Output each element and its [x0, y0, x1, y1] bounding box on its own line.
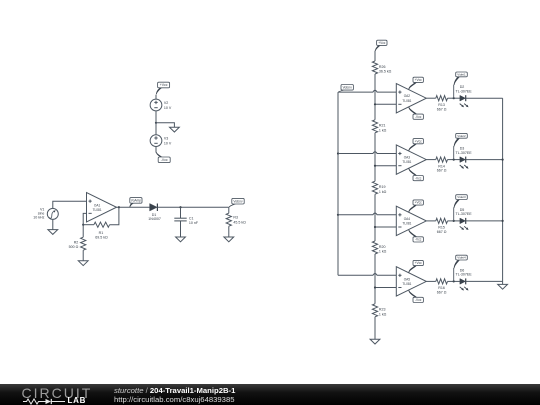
svg-text:+Vcc: +Vcc: [415, 261, 423, 265]
voltage source V2: [150, 99, 172, 111]
svg-text:1N4007: 1N4007: [148, 217, 161, 221]
svg-text:Videt4: Videt4: [457, 256, 466, 260]
wire: [466, 159, 503, 161]
node junction: [502, 159, 504, 161]
svg-text:+Vcc: +Vcc: [160, 83, 168, 87]
svg-text:+Vcc: +Vcc: [415, 139, 423, 143]
wire: [338, 213, 396, 215]
svg-text:TL081: TL081: [402, 222, 411, 226]
wire: [426, 220, 436, 222]
svg-text:10 kHz: 10 kHz: [33, 215, 44, 219]
svg-text:1 kΩ: 1 kΩ: [379, 312, 387, 316]
wire: [466, 280, 503, 282]
svg-text:R21: R21: [379, 124, 386, 128]
wire: [374, 74, 376, 120]
LED D6: [456, 268, 473, 290]
svg-text:1 kΩ: 1 kΩ: [379, 190, 387, 194]
node junction: [337, 152, 339, 154]
svg-text:R19: R19: [379, 185, 386, 189]
node junction: [502, 220, 504, 222]
svg-text:R3: R3: [233, 216, 238, 220]
svg-text:+Vcc: +Vcc: [378, 41, 386, 45]
svg-text:TL-307EE: TL-307EE: [456, 273, 473, 277]
svg-text:TL-307EE: TL-307EE: [456, 212, 473, 216]
svg-text:V3: V3: [164, 137, 168, 141]
wire: [374, 194, 376, 241]
footer text: [114, 386, 235, 395]
svg-text:OA1: OA1: [94, 203, 101, 207]
resistor R2: [69, 225, 86, 261]
resistor R20: [372, 241, 386, 254]
diode D1: [148, 204, 161, 221]
flag VoEnv: [229, 198, 244, 207]
node junction: [155, 122, 157, 124]
wire: [502, 281, 504, 284]
op-amp OA3: [396, 145, 426, 174]
wire: [448, 159, 460, 161]
node junction: [82, 224, 84, 226]
svg-text:VoAmp: VoAmp: [131, 199, 142, 203]
wire: [448, 280, 460, 282]
svg-text:-Vcc: -Vcc: [415, 115, 422, 119]
op-amp OA1: [87, 193, 117, 222]
wire: [502, 98, 504, 281]
svg-text:TL081: TL081: [402, 160, 411, 164]
svg-text:1 kΩ: 1 kΩ: [379, 128, 387, 132]
svg-text:-Vcc: -Vcc: [415, 238, 422, 242]
flag VoEnv bus: [338, 85, 353, 93]
node junction: [453, 97, 455, 99]
capacitor C1: [174, 207, 199, 237]
flag -Vcc supply: [156, 152, 170, 162]
svg-text:-Vcc: -Vcc: [415, 298, 422, 302]
wire: [375, 165, 396, 167]
node junction: [374, 226, 376, 228]
wire: [83, 213, 86, 224]
wire: [338, 152, 396, 154]
svg-text:R23: R23: [379, 308, 386, 312]
svg-text:10 V: 10 V: [164, 142, 172, 146]
flag +Vcc ladder: [375, 40, 387, 51]
flag +Vcc supply: [156, 82, 170, 94]
wire: [374, 254, 376, 304]
node junction: [374, 286, 376, 288]
wire: [374, 51, 376, 61]
LED D5: [456, 208, 473, 230]
op-amp OA5: [396, 267, 426, 296]
resistor R16: [436, 279, 448, 295]
svg-text:OA4: OA4: [404, 217, 411, 221]
svg-text:10 nF: 10 nF: [189, 221, 199, 225]
CircuitLab logo: [22, 385, 93, 401]
ground: [170, 127, 180, 132]
svg-text:1 kΩ: 1 kΩ: [379, 250, 387, 254]
svg-text:TL081: TL081: [93, 208, 102, 212]
svg-text:Videt2: Videt2: [457, 134, 466, 138]
ground: [370, 339, 380, 344]
svg-text:+Vcc: +Vcc: [415, 201, 423, 205]
ground: [498, 284, 508, 289]
flag +Vcc OA3: [408, 139, 423, 151]
wire: [466, 97, 503, 99]
ground: [224, 237, 234, 242]
flag Videt1: [454, 72, 468, 98]
node junction: [453, 220, 455, 222]
node junction: [337, 214, 339, 216]
svg-text:Videt3: Videt3: [457, 195, 466, 199]
op-amp OA4: [396, 206, 426, 235]
flag -Vcc OA3: [408, 168, 423, 180]
LED D3: [456, 147, 473, 169]
svg-text:667 Ω: 667 Ω: [437, 291, 447, 295]
resistor R23: [372, 304, 386, 317]
svg-text:VoEnv: VoEnv: [233, 199, 243, 203]
resistor R13: [436, 96, 448, 112]
svg-text:Videt1: Videt1: [457, 72, 466, 76]
svg-text:TL081: TL081: [402, 99, 411, 103]
wire: [83, 224, 94, 226]
svg-text:C1: C1: [189, 216, 194, 220]
svg-text:R2: R2: [74, 241, 79, 245]
wire: [110, 207, 119, 224]
wire: [426, 280, 436, 282]
svg-text:TL-307EE: TL-307EE: [456, 90, 473, 94]
flag Videt4: [454, 255, 468, 281]
wire: [466, 220, 503, 222]
wire: [155, 123, 157, 135]
LED D2: [456, 85, 473, 107]
flag -Vcc OA2: [408, 107, 423, 119]
wire: [375, 287, 396, 289]
node junction: [374, 165, 376, 167]
wire: [426, 97, 436, 99]
wire: [155, 146, 157, 152]
wire: [155, 95, 157, 100]
wire: [375, 103, 396, 105]
signal generator V1: [33, 207, 58, 219]
wire: [375, 226, 396, 228]
flag -Vcc OA5: [408, 290, 423, 302]
wire: [52, 219, 54, 229]
resistor R14: [436, 157, 448, 173]
resistor R1: [94, 222, 110, 239]
wire: [448, 220, 460, 222]
svg-text:-Vcc: -Vcc: [161, 158, 168, 162]
op-amp OA2: [396, 84, 426, 113]
flag +Vcc OA4: [408, 200, 423, 212]
resistor R15: [436, 218, 448, 234]
ground: [176, 237, 186, 242]
wire: [374, 133, 376, 181]
svg-text:+Vcc: +Vcc: [415, 78, 423, 82]
node junction: [179, 206, 181, 208]
node junction: [453, 159, 455, 161]
flag Videt2: [454, 133, 468, 159]
resistor R21: [372, 120, 386, 133]
svg-text:500 Ω: 500 Ω: [69, 245, 79, 249]
flag VoAmp: [129, 198, 142, 208]
node junction: [374, 103, 376, 105]
svg-text:667 Ω: 667 Ω: [437, 107, 447, 111]
svg-text:VoEnv: VoEnv: [343, 85, 353, 89]
svg-text:36.5 kΩ: 36.5 kΩ: [379, 70, 392, 74]
svg-text:OA2: OA2: [404, 94, 411, 98]
resistor R26: [372, 61, 391, 74]
wire: [338, 90, 396, 92]
flag -Vcc OA4: [408, 230, 423, 242]
wire: [426, 159, 436, 161]
wire: [157, 206, 228, 208]
svg-text:TL081: TL081: [402, 282, 411, 286]
wire: [117, 206, 150, 208]
flag +Vcc OA5: [408, 260, 423, 272]
ground: [78, 261, 88, 266]
svg-text:R20: R20: [379, 245, 386, 249]
wire: [53, 201, 87, 208]
wire: [338, 274, 396, 276]
svg-text:V2: V2: [164, 101, 168, 105]
wire: [448, 97, 460, 99]
flag +Vcc OA2: [408, 77, 423, 89]
node junction: [453, 280, 455, 282]
svg-text:R26: R26: [379, 65, 386, 69]
svg-text:OA3: OA3: [404, 156, 411, 160]
svg-text:69.5 kΩ: 69.5 kΩ: [95, 235, 108, 239]
wire: [156, 123, 174, 127]
svg-text:OA5: OA5: [404, 277, 411, 281]
resistor R3: [226, 207, 246, 237]
wire: [155, 111, 157, 123]
wire: [337, 92, 339, 275]
resistor R19: [372, 181, 386, 194]
svg-text:667 Ω: 667 Ω: [437, 169, 447, 173]
node junction: [118, 206, 120, 208]
flag Videt3: [454, 195, 468, 221]
ground: [48, 230, 58, 235]
svg-text:-Vcc: -Vcc: [415, 176, 422, 180]
svg-text:667 Ω: 667 Ω: [437, 230, 447, 234]
wire: [374, 317, 376, 339]
voltage source V3: [150, 135, 172, 147]
svg-text:45.5 kΩ: 45.5 kΩ: [233, 220, 246, 224]
svg-text:TL-307EE: TL-307EE: [456, 151, 473, 155]
svg-text:10 V: 10 V: [164, 106, 172, 110]
